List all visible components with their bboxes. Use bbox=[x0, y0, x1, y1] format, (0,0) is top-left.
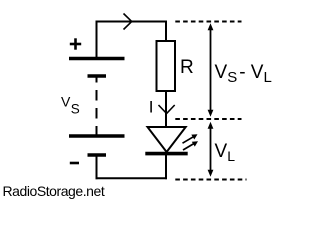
dashed reference line middle bbox=[175, 118, 241, 120]
resistor R1 body bbox=[157, 41, 176, 91]
wire bottom horizontal bbox=[96, 177, 168, 179]
wire from top wire down to resistor bbox=[165, 21, 167, 42]
dashed reference line top bbox=[175, 21, 241, 23]
wire right vertical from bottom wire up to LED cathode bbox=[165, 154, 167, 179]
svg-text:S: S bbox=[71, 102, 80, 117]
LED light arrow 1 bbox=[183, 134, 198, 143]
LED D1 triangle (anode) bbox=[148, 127, 186, 152]
wire top horizontal bbox=[96, 21, 167, 23]
dashed cell-continuation line bbox=[96, 90, 98, 135]
wire from battery - plate down bbox=[96, 157, 98, 180]
battery short plate 2 bbox=[88, 153, 107, 156]
battery minus sign bbox=[70, 162, 79, 165]
wire left vertical from top wire to battery + plate bbox=[96, 21, 98, 58]
LED light arrow 2 bbox=[183, 141, 198, 150]
voltage arrow VL (double headed) bbox=[208, 122, 214, 177]
battery long plate 1 bbox=[69, 57, 125, 60]
battery short plate 1 bbox=[88, 74, 107, 77]
svg-text:I: I bbox=[149, 97, 154, 116]
voltage arrow VS-VL (double headed) bbox=[208, 23, 214, 117]
LED cathode bar bbox=[145, 152, 187, 156]
svg-text:VS- VL: VS- VL bbox=[215, 62, 272, 86]
svg-text:R: R bbox=[180, 57, 194, 78]
svg-text:V: V bbox=[61, 94, 71, 110]
wire from resistor bottom to LED anode bbox=[165, 91, 167, 128]
svg-text:RadioStorage.net: RadioStorage.net bbox=[3, 183, 105, 199]
current arrow on top wire bbox=[124, 14, 132, 30]
battery plus sign bbox=[70, 38, 81, 49]
stub below short plate 1 bbox=[96, 78, 98, 83]
battery long plate 2 bbox=[69, 134, 125, 137]
current direction arrow (down) bbox=[159, 105, 175, 114]
dashed reference line bottom bbox=[175, 179, 246, 181]
